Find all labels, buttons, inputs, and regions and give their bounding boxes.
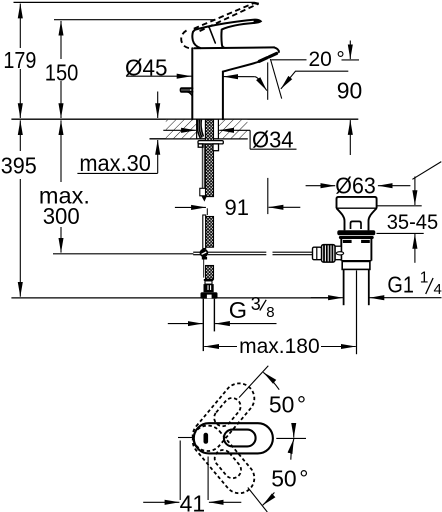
svg-text:G1: G1 — [387, 272, 414, 298]
svg-text:max.30: max.30 — [79, 150, 150, 176]
svg-text:90: 90 — [337, 78, 363, 104]
svg-text:1: 1 — [420, 270, 429, 287]
svg-text:179: 179 — [3, 47, 36, 73]
svg-text:Ø63: Ø63 — [335, 173, 376, 199]
svg-text:20°: 20° — [309, 48, 345, 71]
svg-text:50°: 50° — [269, 392, 306, 418]
svg-text:91: 91 — [225, 195, 249, 220]
svg-text:4: 4 — [434, 281, 442, 298]
svg-text:G: G — [229, 297, 247, 323]
svg-text:300: 300 — [43, 203, 80, 229]
svg-text:150: 150 — [45, 59, 79, 85]
svg-text:395: 395 — [1, 152, 37, 178]
svg-text:8: 8 — [266, 304, 274, 321]
svg-text:50°: 50° — [271, 466, 308, 492]
svg-text:Ø34: Ø34 — [252, 126, 294, 152]
svg-text:max.180: max.180 — [239, 335, 320, 358]
svg-text:41: 41 — [180, 491, 206, 512]
svg-text:Ø45: Ø45 — [125, 54, 168, 80]
svg-text:35-45: 35-45 — [387, 211, 439, 234]
svg-text:3: 3 — [251, 294, 261, 314]
